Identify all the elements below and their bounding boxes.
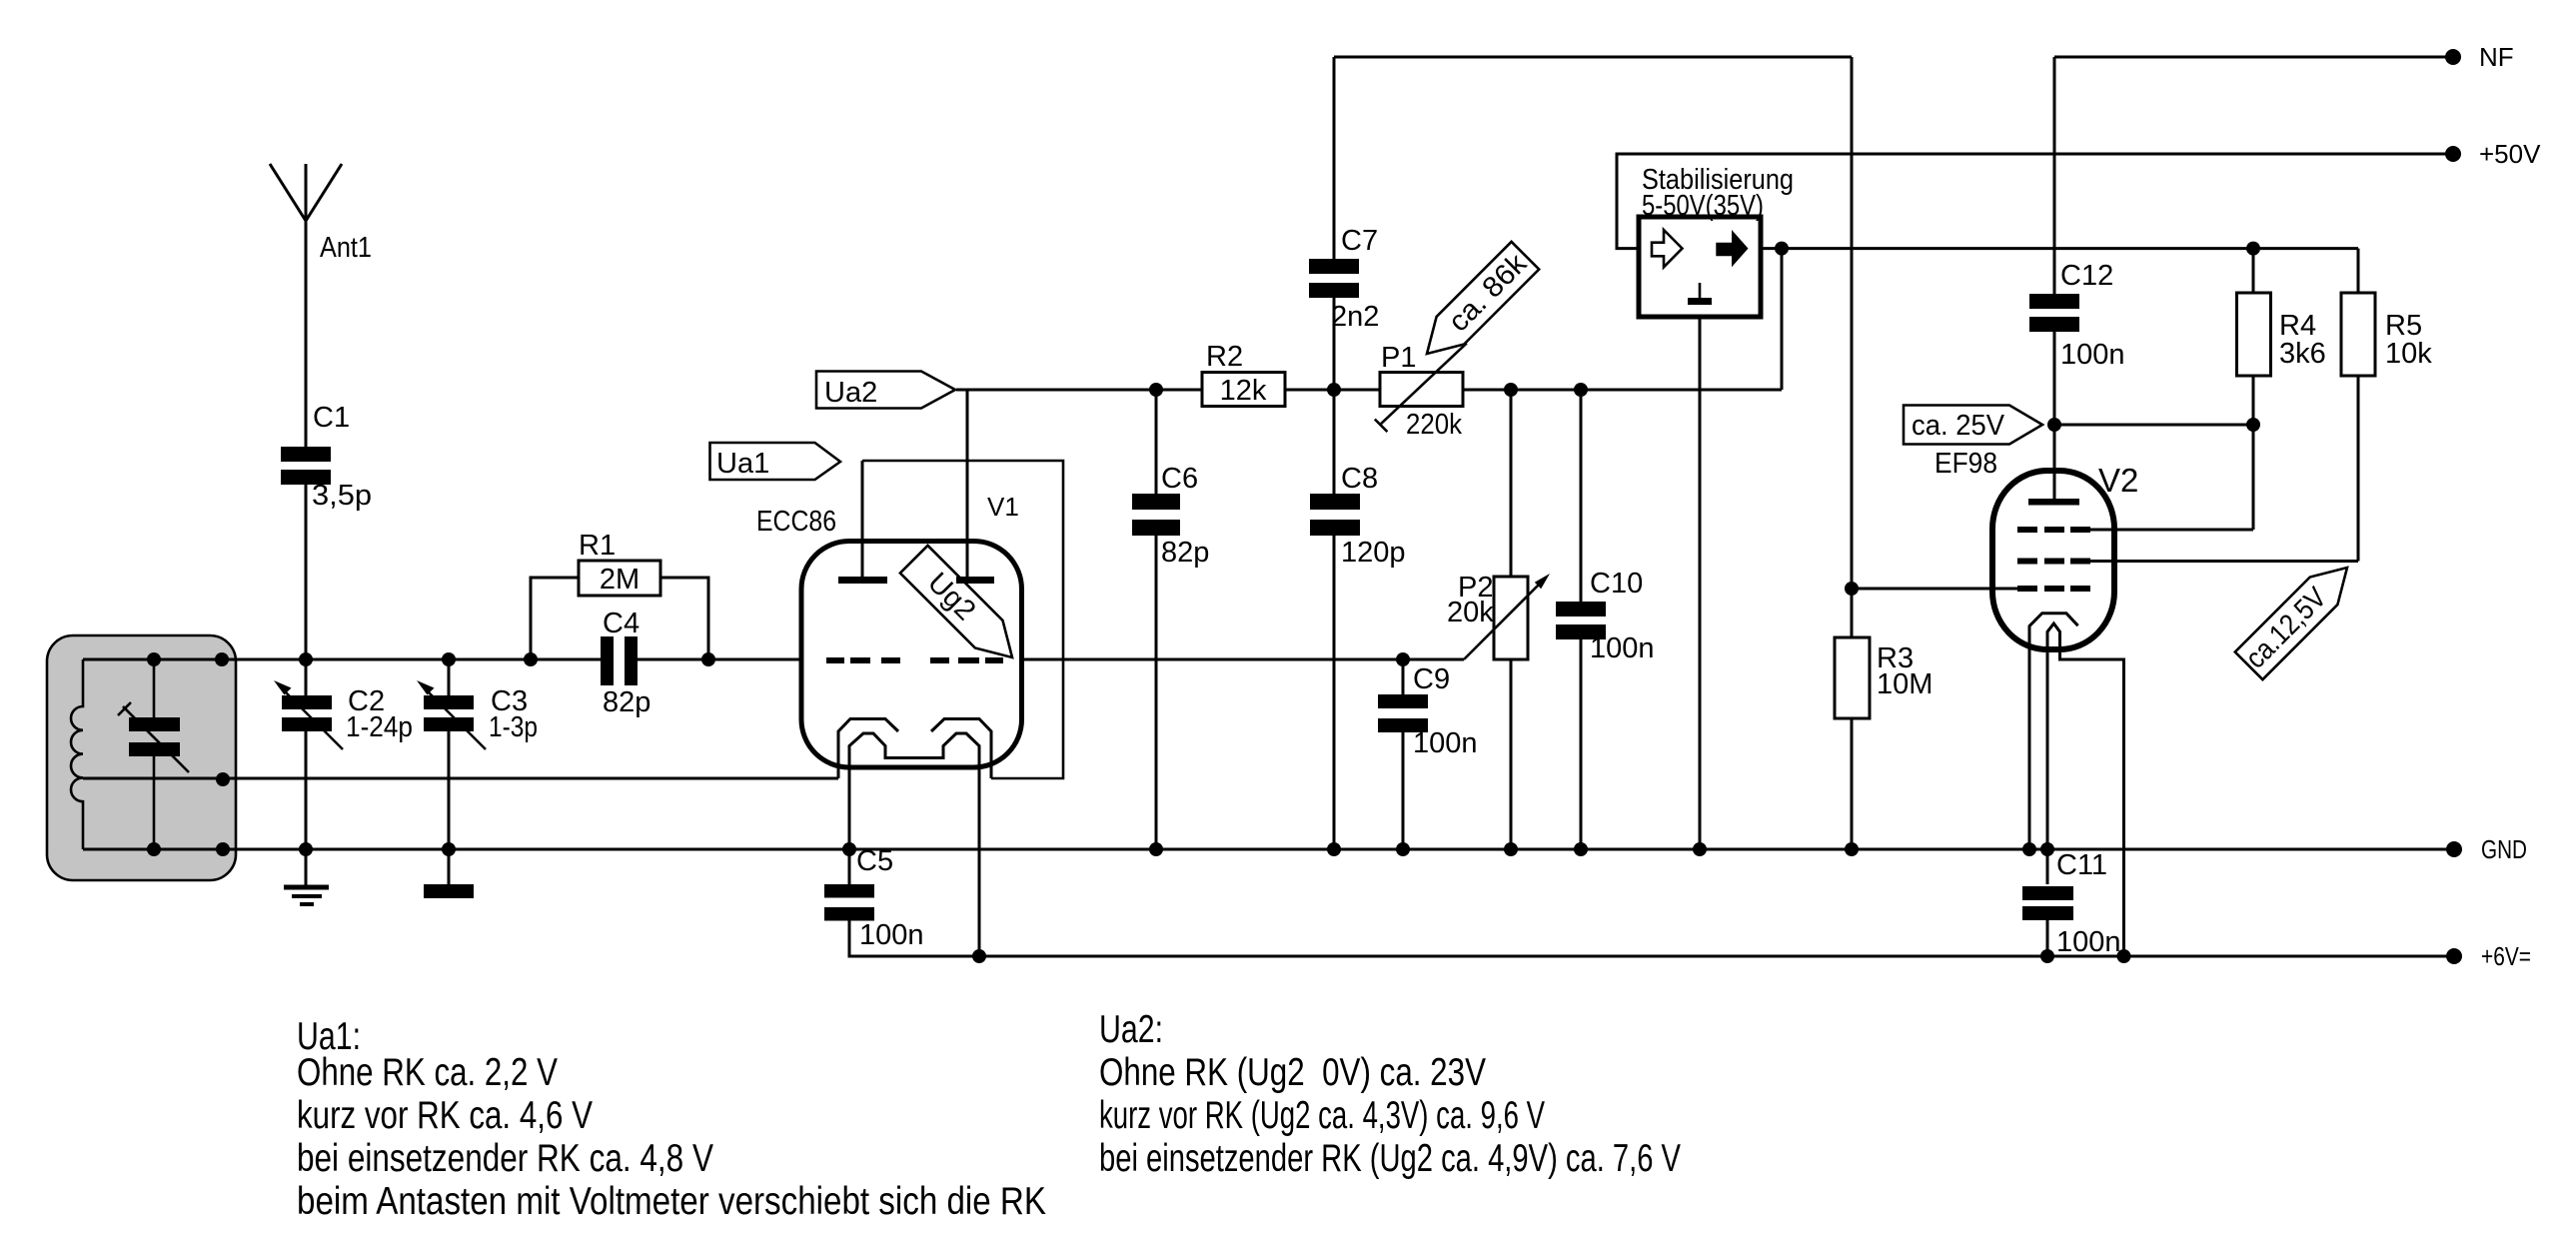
svg-text:R2: R2 — [1206, 341, 1243, 373]
capacitor C7 2n2 — [1309, 57, 1379, 390]
svg-text:Ohne RK (Ug2 0V) ca. 23V: Ohne RK (Ug2 0V) ca. 23V — [1099, 1051, 1486, 1094]
flag ca.12,5V (rotated) — [2235, 568, 2347, 679]
V2 grid g3 (dashed) — [2017, 586, 2090, 592]
V1 grid (dashed) — [826, 657, 1003, 663]
variable capacitor inside module — [118, 659, 189, 849]
wire stab output to R4/R5 — [1761, 247, 2358, 250]
V2 cathode — [2040, 623, 2131, 963]
resistor R3 10M — [1835, 57, 1932, 856]
wire R2 to P1 — [1285, 389, 1380, 392]
wire V2 g3 to R3 node — [1852, 588, 2017, 591]
capacitor C12 100n — [2029, 57, 2125, 502]
capacitor C4 82p — [601, 608, 650, 718]
svg-text:C11: C11 — [2056, 849, 2107, 881]
svg-text:220k: 220k — [1406, 409, 1462, 441]
V1 heater left — [838, 719, 898, 779]
svg-text:Ua2: Ua2 — [824, 377, 877, 409]
svg-text:10M: 10M — [1877, 668, 1932, 700]
svg-text:82p: 82p — [603, 686, 650, 718]
V1 anode a2 — [956, 390, 994, 584]
capacitor C9 100n — [1378, 652, 1478, 856]
terminal +6V= — [2446, 941, 2531, 971]
svg-text:1-24p: 1-24p — [346, 711, 413, 743]
svg-text:P1: P1 — [1381, 342, 1416, 374]
svg-text:+50V: +50V — [2479, 139, 2541, 169]
potentiometer P2 20k — [1447, 383, 1550, 856]
capacitor C8 120p — [1310, 390, 1406, 856]
svg-text:EF98: EF98 — [1934, 448, 1997, 480]
svg-text:+6V=: +6V= — [2481, 941, 2531, 971]
note Ua2 measurements — [1099, 1008, 1681, 1180]
svg-text:3k6: 3k6 — [2279, 338, 2326, 370]
svg-text:Ua1: Ua1 — [716, 448, 769, 480]
svg-text:C9: C9 — [1413, 663, 1450, 695]
resistor R4 3k6 — [2237, 242, 2326, 530]
potentiometer P1 220k — [1375, 342, 1467, 441]
resistor R5 10k — [2341, 249, 2432, 562]
wire C12 bottom to R4 bottom — [2054, 424, 2253, 427]
terminal NF — [2445, 42, 2514, 72]
flag Ua2 — [816, 372, 955, 410]
svg-text:Ohne RK ca. 2,2 V: Ohne RK ca. 2,2 V — [297, 1051, 558, 1094]
svg-text:C8: C8 — [1341, 463, 1378, 495]
svg-text:2M: 2M — [600, 564, 640, 596]
svg-text:C7: C7 — [1341, 225, 1378, 257]
svg-text:C6: C6 — [1161, 463, 1198, 495]
wire C7 top to NF/R3 branch — [1334, 56, 1852, 59]
resistor R1 2M — [531, 530, 708, 659]
capacitor C5 100n — [824, 842, 924, 951]
capacitor C10 100n — [1556, 383, 1655, 856]
wire grid rail (coil top to C4) — [83, 658, 605, 661]
svg-text:C5: C5 — [856, 845, 893, 877]
chassis ground below C3 — [424, 849, 474, 898]
flag ca. 86k (rotated) — [1427, 242, 1539, 354]
junction dots on GND rail (left) — [299, 842, 313, 856]
svg-text:GND: GND — [2481, 834, 2527, 864]
flag Ua1 — [710, 443, 841, 480]
capacitor C3 (1-3p variable) — [417, 659, 538, 849]
junction dot V1 cathode to +6V — [972, 949, 986, 963]
wire P1 to stab output riser — [1463, 389, 1782, 392]
svg-text:Ua2:: Ua2: — [1099, 1008, 1163, 1051]
wire grid rail (C4 to V1) — [635, 658, 803, 661]
flag ca. 25V — [1904, 406, 2042, 445]
pentode V2 EF98 envelope — [1992, 471, 2114, 649]
svg-text:100n: 100n — [859, 919, 924, 951]
V2 heater — [2022, 614, 2078, 856]
svg-text:100n: 100n — [1413, 727, 1478, 759]
svg-text:100n: 100n — [2060, 339, 2125, 371]
junction dots on grid rail — [299, 652, 313, 666]
svg-text:3,5p: 3,5p — [312, 480, 372, 512]
svg-text:V1: V1 — [987, 492, 1019, 522]
terminal +50V — [2445, 139, 2541, 169]
svg-text:10k: 10k — [2385, 338, 2432, 370]
wire NF line — [2054, 56, 2453, 59]
capacitor C2 (1-24p variable) — [274, 659, 413, 849]
tuned circuit module (grey box) — [47, 635, 236, 880]
triode V1 ECC86 envelope — [801, 542, 1022, 768]
wire +6V rail — [849, 920, 2454, 956]
svg-text:bei einsetzender RK ca. 4,8 V: bei einsetzender RK ca. 4,8 V — [297, 1137, 713, 1180]
terminal GND — [2446, 834, 2527, 864]
svg-text:kurz vor RK (Ug2 ca. 4,3V) ca.: kurz vor RK (Ug2 ca. 4,3V) ca. 9,6 V — [1099, 1094, 1545, 1137]
wire V2 g1 to R4 — [2090, 529, 2253, 532]
svg-text:Ant1: Ant1 — [320, 232, 372, 264]
wire grid rail right of V1 — [1020, 658, 1464, 661]
wire V2 g2 to R5 — [2090, 560, 2358, 563]
flag Ug2 (rotated) — [900, 546, 1012, 657]
riser stab output to main wire — [1781, 249, 1784, 390]
svg-text:C4: C4 — [603, 608, 640, 639]
svg-text:2n2: 2n2 — [1331, 301, 1379, 333]
svg-text:C12: C12 — [2060, 260, 2113, 292]
V1 cathode (both systems) — [849, 733, 979, 956]
svg-text:ca. 25V: ca. 25V — [1912, 410, 2005, 442]
ground symbol below C2 — [284, 849, 329, 904]
svg-text:C10: C10 — [1590, 568, 1643, 600]
wire coil tap rail — [83, 777, 838, 780]
svg-text:beim Antasten mit Voltmeter ve: beim Antasten mit Voltmeter verschiebt s… — [297, 1180, 1046, 1223]
wire Ua2 node to R2 — [956, 389, 1202, 392]
svg-text:R1: R1 — [579, 530, 616, 562]
svg-text:20k: 20k — [1447, 597, 1494, 628]
measurement loop box around V1 — [862, 461, 1063, 778]
V2 grid g2 (dashed) — [2017, 559, 2090, 565]
V2 anode (top cap) — [2028, 499, 2079, 506]
svg-text:12k: 12k — [1220, 375, 1267, 407]
svg-text:kurz vor RK ca. 4,6 V: kurz vor RK ca. 4,6 V — [297, 1094, 593, 1137]
wire C1 to grid rail — [305, 485, 308, 659]
V1 anode a1 — [838, 461, 887, 584]
svg-text:C1: C1 — [313, 402, 350, 434]
note Ua1 measurements — [297, 1015, 1046, 1223]
V1 heater right — [931, 719, 991, 779]
resistor R2 12k — [1202, 341, 1285, 407]
svg-text:bei einsetzender RK (Ug2 ca. 4: bei einsetzender RK (Ug2 ca. 4,9V) ca. 7… — [1099, 1137, 1681, 1180]
svg-text:120p: 120p — [1341, 537, 1406, 569]
junction dots inside module — [147, 652, 161, 666]
capacitor C1 — [281, 402, 372, 512]
svg-text:100n: 100n — [2056, 926, 2121, 958]
svg-text:NF: NF — [2479, 42, 2514, 72]
svg-text:1-3p: 1-3p — [489, 711, 538, 743]
svg-text:82p: 82p — [1161, 537, 1209, 569]
svg-text:ECC86: ECC86 — [756, 506, 836, 538]
capacitor C6 82p — [1132, 383, 1209, 856]
svg-text:100n: 100n — [1590, 632, 1655, 664]
svg-text:5-50V(35V): 5-50V(35V) — [1642, 190, 1764, 222]
V2 grid g1 (dashed) — [2017, 527, 2090, 533]
stabiliser block — [1617, 154, 2453, 856]
svg-text:V2: V2 — [2098, 462, 2138, 499]
antenna Ant1 — [270, 164, 372, 450]
wire GND rail — [83, 848, 2454, 851]
capacitor C11 100n — [2022, 849, 2121, 963]
inductor L1 (coil with tap) — [71, 659, 83, 849]
